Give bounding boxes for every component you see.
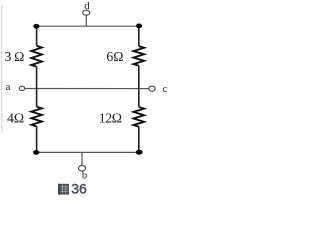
svg-text:4Ω: 4Ω (7, 111, 24, 126)
terminal d (83, 10, 90, 15)
wire left rail middle (36, 67, 38, 107)
wire middle (a-c) (25, 88, 149, 90)
svg-text:d: d (84, 0, 90, 12)
junction bottom-left (33, 150, 39, 155)
junction bottom-right (136, 150, 143, 155)
svg-text:12Ω: 12Ω (99, 111, 122, 126)
page edge artifact (1, 5, 3, 133)
wire left rail lower (36, 127, 38, 153)
svg-text:a: a (6, 81, 11, 93)
terminal a (19, 86, 24, 90)
junction top-right (136, 24, 142, 29)
resistor R 3ohm (31, 46, 42, 67)
svg-text:6Ω: 6Ω (106, 49, 123, 64)
terminal b (78, 166, 85, 171)
wire left rail upper (36, 26, 38, 46)
resistor R 12ohm (134, 107, 145, 127)
wire top (d rail) (37, 25, 139, 27)
caption glyph (CJK tu) (58, 184, 69, 195)
junction top-left (33, 24, 39, 29)
svg-text:3 Ω: 3 Ω (4, 49, 24, 64)
wire bottom (37, 151, 139, 153)
wire d stub (85, 15, 87, 26)
terminal c (149, 86, 155, 91)
resistor R 6ohm (134, 46, 145, 65)
wire right rail middle (138, 66, 140, 107)
svg-text:36: 36 (71, 180, 87, 196)
wire right rail lower (138, 127, 140, 153)
svg-text:c: c (162, 83, 167, 95)
wire b stub (81, 152, 83, 165)
wire right rail upper (138, 26, 140, 46)
resistor R 4ohm (31, 107, 42, 127)
